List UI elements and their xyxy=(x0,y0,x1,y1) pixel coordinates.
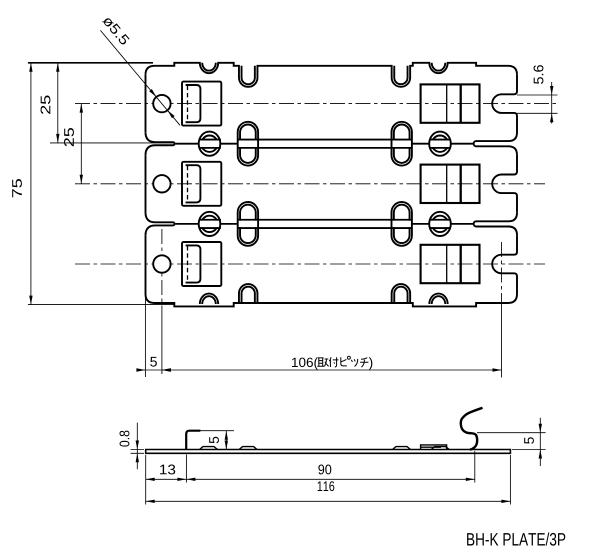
plate 2 tab bend line (hidden) xyxy=(187,166,189,202)
junction 2 right slit xyxy=(474,213,517,235)
junction 2 lance capsule 2 outer xyxy=(392,202,412,246)
junction 1 left slit xyxy=(146,132,175,155)
junction 2 lance capsule 1 inner xyxy=(240,205,256,243)
dimension 13 xyxy=(146,478,187,480)
plate 2 left edge xyxy=(145,155,147,212)
plate 1 contact block xyxy=(421,84,480,122)
extension line top edge xyxy=(28,62,153,64)
plate 3 right edge with mounting slot xyxy=(492,235,517,294)
extension line plate left edge (bottom) xyxy=(144,296,146,377)
plate 3 bottom edge lance domes xyxy=(200,294,218,304)
side view spring hook xyxy=(461,408,483,450)
dimension 75 overall height xyxy=(30,63,32,305)
label 106 (mounting pitch) xyxy=(292,357,318,370)
junction 1 lance capsule 1 inner xyxy=(240,125,256,163)
dimension 5 hole offset xyxy=(137,369,162,371)
junction 1 dimple 1 inner xyxy=(201,136,217,152)
junction 1 strip bars xyxy=(199,140,221,147)
junction 2 lance capsule 2 inner xyxy=(394,205,410,243)
junction 1 dimple 2 outer xyxy=(429,132,451,156)
junction 1 connecting link lines xyxy=(176,143,475,145)
junction 1 lance capsule 2 outer xyxy=(392,122,412,166)
center line plate 1 xyxy=(75,103,558,105)
side view raised contact platform xyxy=(421,445,447,450)
junction 1 dimple 1 outer xyxy=(199,132,221,156)
junction 2 strip bars xyxy=(199,221,221,228)
junction 1 right slit xyxy=(474,133,517,155)
plate 3 bottom edge xyxy=(146,294,518,306)
dimension 5.6 slot width xyxy=(517,95,558,113)
plate 1 formed tab opening xyxy=(182,82,221,126)
junction 2 dimple 1 inner xyxy=(201,216,217,232)
plate 1 mounting hole xyxy=(153,95,170,112)
plate 3 formed tab opening xyxy=(182,242,221,286)
plate 2 formed tab xyxy=(186,165,201,202)
junction 1 dimple 2 inner xyxy=(432,136,448,152)
plate 3 contact block xyxy=(421,245,480,283)
extension line bottom edge xyxy=(28,304,175,306)
plate 3 tab bend line (hidden) xyxy=(187,246,189,282)
title BH-K PLATE/3P xyxy=(467,532,565,545)
dimension 5 tab height xyxy=(200,430,234,432)
junction 2 dimple 2 outer xyxy=(429,212,451,236)
dimension 90 xyxy=(186,478,474,480)
vertical center line of plate-3 hole xyxy=(161,229,163,306)
plate 2 contact block xyxy=(421,165,480,203)
plate 1 tab bend line (hidden) xyxy=(187,86,189,122)
plate 1 top edge with lance bowls and slots xyxy=(146,63,518,87)
center line plate 2 xyxy=(75,183,545,185)
side view bent-up tab xyxy=(186,431,200,450)
dimension 25 top pitch xyxy=(57,63,59,143)
plate 3 left edge xyxy=(145,235,147,294)
leader diameter 5.5 xyxy=(100,30,180,125)
junction 2 dimple 2 inner xyxy=(432,216,448,232)
plate 3 formed tab xyxy=(186,245,201,282)
plate 1 right edge with mounting slot xyxy=(492,75,517,133)
plate 1 left edge xyxy=(145,75,147,132)
junction 2 connecting link lines xyxy=(176,223,475,225)
plate 2 right edge with mounting slot xyxy=(492,155,517,213)
plate 2 formed tab opening xyxy=(182,162,221,206)
dimension 25 hole pitch xyxy=(80,104,82,184)
dimension 116 xyxy=(146,500,511,502)
dimension 5 hook height xyxy=(477,433,546,450)
junction 2 lance capsule 1 outer xyxy=(238,202,258,246)
plate 1 top edge inner arcs of bowls and slots xyxy=(202,63,216,71)
dimension 0.8 thickness xyxy=(131,450,145,454)
plate 1 formed tab xyxy=(186,85,201,122)
junction 1 lance capsule 2 inner xyxy=(394,125,410,163)
extension line junction 1 xyxy=(50,142,174,144)
junction 2 dimple 1 outer xyxy=(199,212,221,236)
side view lance bumps xyxy=(200,447,218,450)
plate 3 mounting hole xyxy=(153,255,170,272)
junction 2 left slit xyxy=(146,212,175,235)
center line plate 3 xyxy=(75,263,545,265)
extension lines for 13 / 90 / 116 xyxy=(145,455,147,505)
side view plate bar xyxy=(146,450,511,454)
dimension 106 mounting pitch xyxy=(162,369,502,371)
junction 1 lance capsule 1 outer xyxy=(238,122,258,166)
plate 2 mounting hole xyxy=(153,175,170,192)
